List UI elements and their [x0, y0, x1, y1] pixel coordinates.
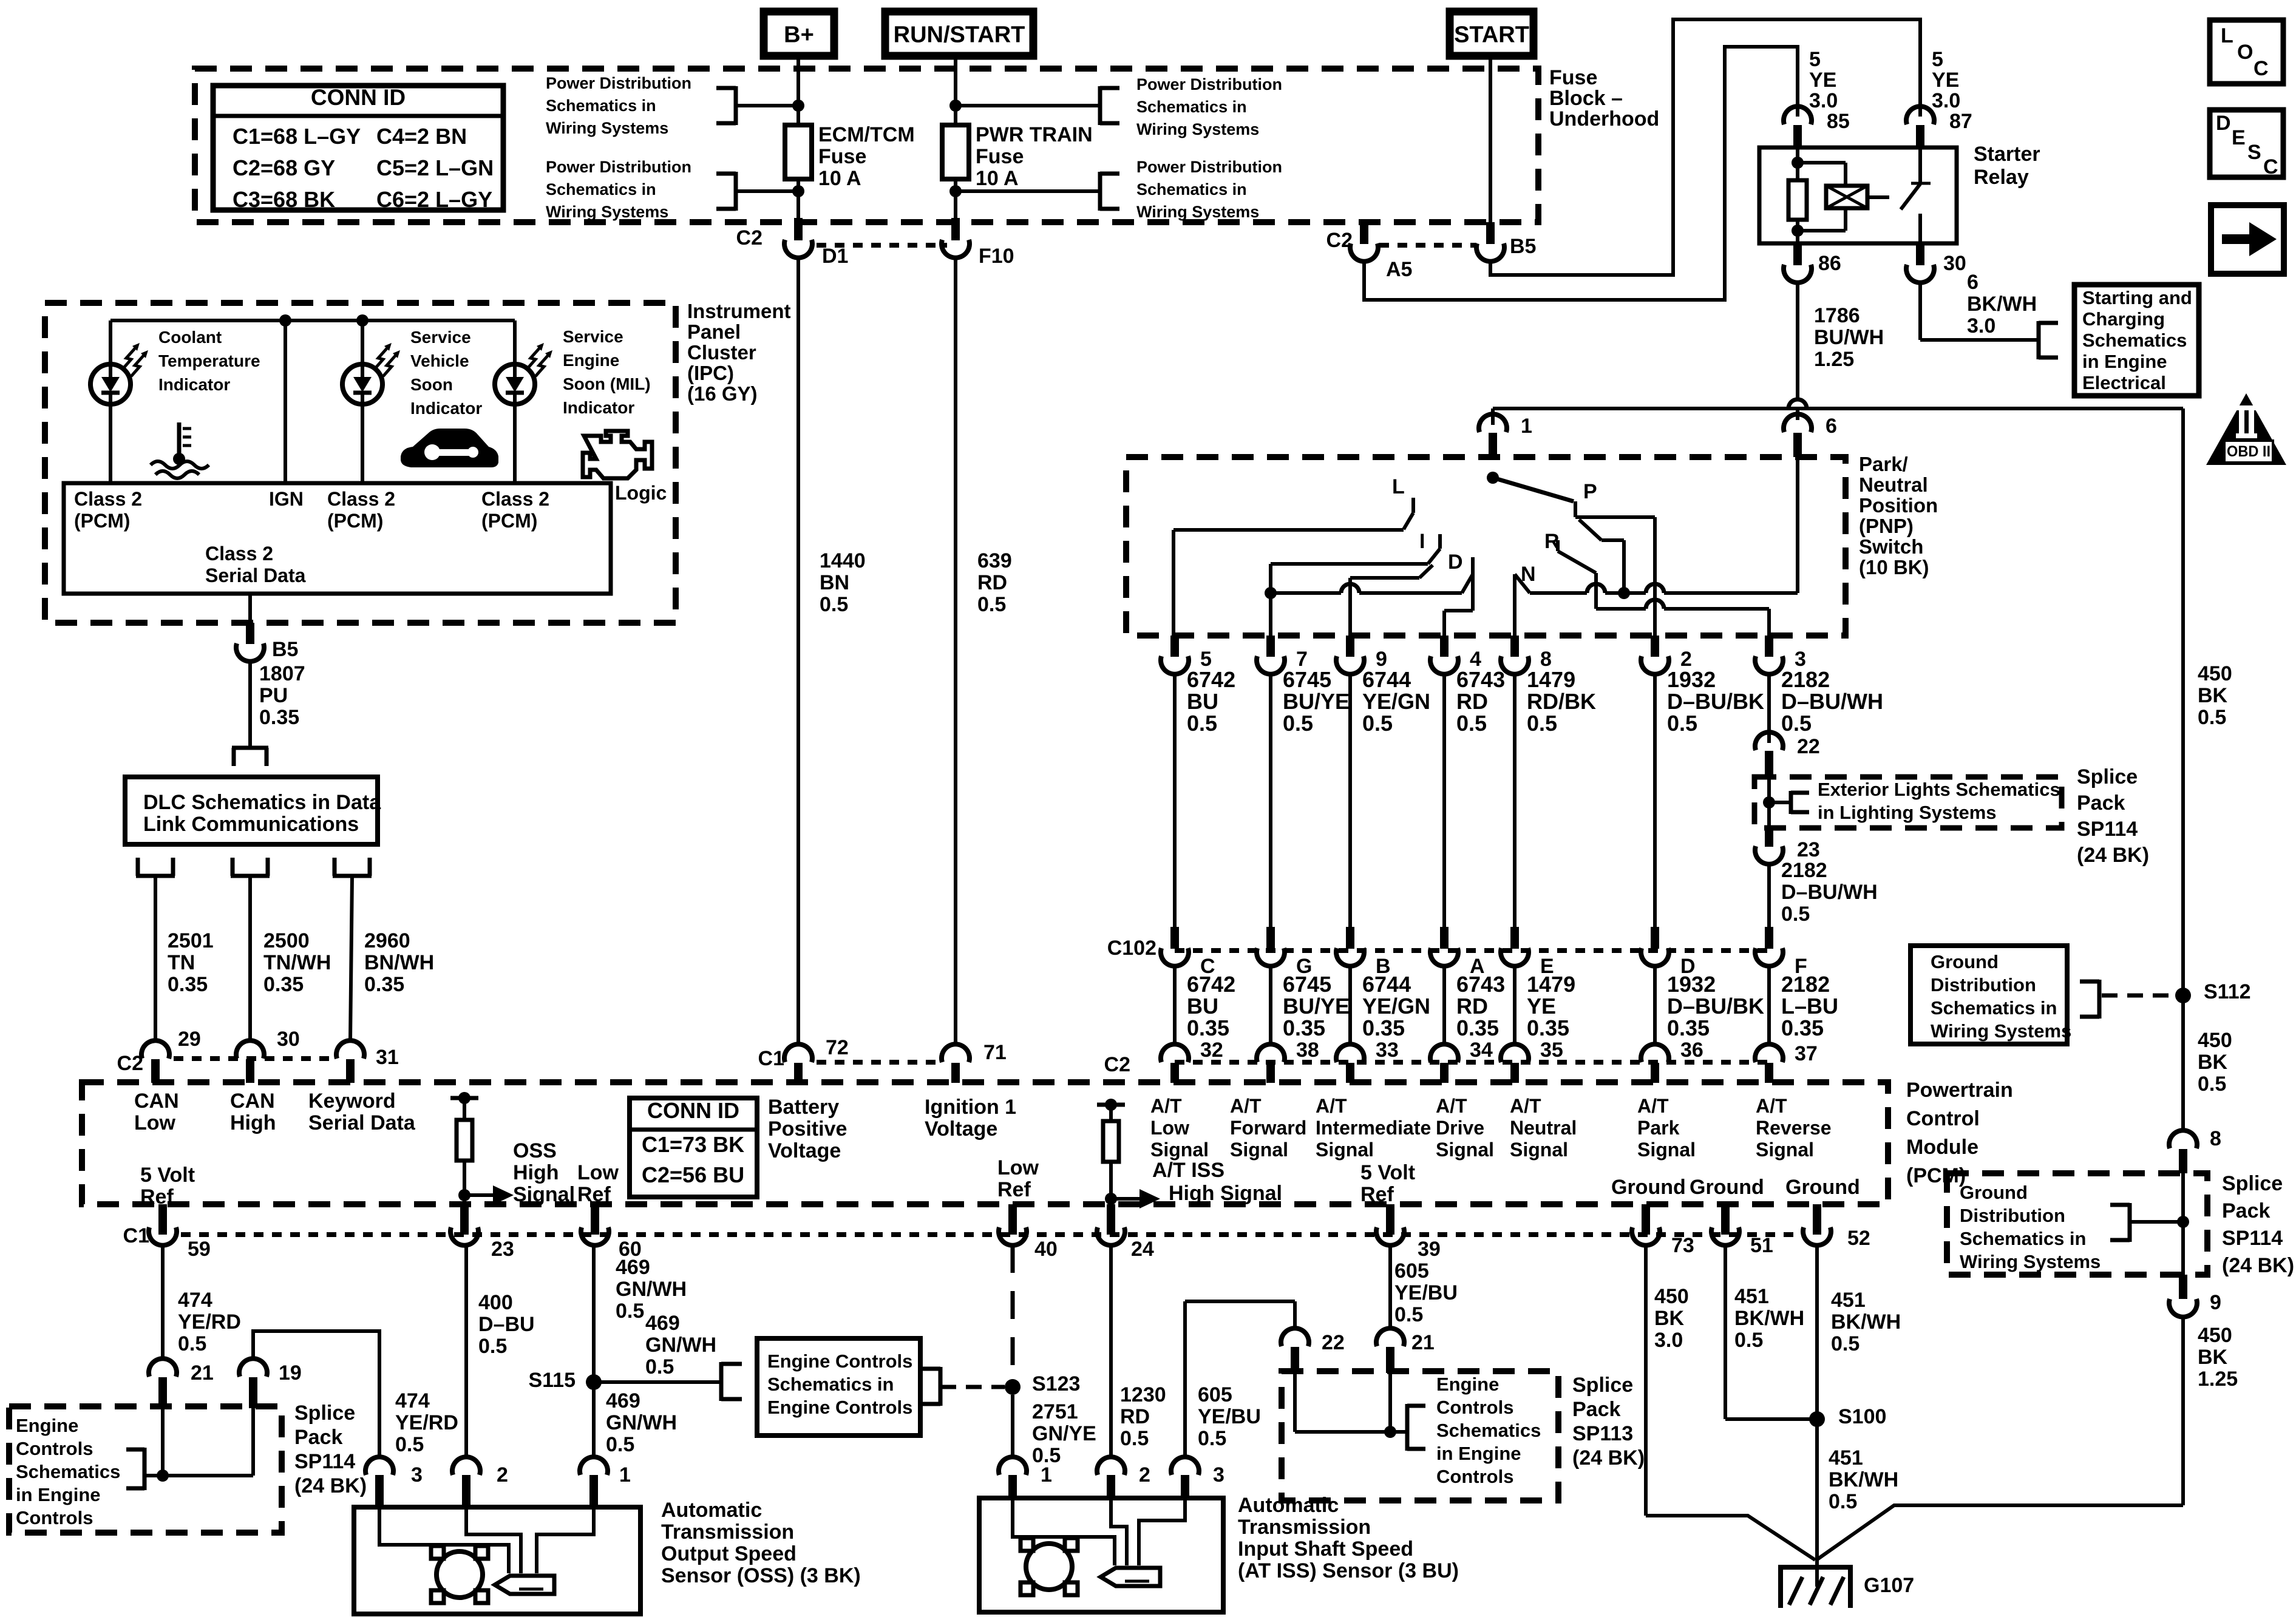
svg-text:Class 2: Class 2	[74, 488, 142, 510]
svg-text:31: 31	[376, 1046, 399, 1069]
svg-text:605: 605	[1198, 1383, 1232, 1406]
svg-text:Exterior Lights Schematics: Exterior Lights Schematics	[1818, 779, 2060, 800]
svg-text:2182: 2182	[1781, 667, 1830, 692]
svg-text:6743: 6743	[1456, 972, 1505, 997]
svg-text:0.5: 0.5	[616, 1300, 644, 1323]
svg-text:C1=73 BK: C1=73 BK	[642, 1132, 744, 1157]
svg-text:Signal: Signal	[513, 1183, 575, 1206]
svg-text:Indicator: Indicator	[410, 399, 482, 418]
svg-text:BU/WH: BU/WH	[1814, 326, 1884, 349]
svg-text:Splice: Splice	[2077, 765, 2138, 788]
svg-text:Signal: Signal	[1510, 1139, 1568, 1161]
svg-text:71: 71	[983, 1041, 1007, 1064]
svg-text:469: 469	[616, 1256, 650, 1279]
svg-text:1.25: 1.25	[2198, 1368, 2238, 1391]
svg-text:0.5: 0.5	[1831, 1332, 1860, 1355]
svg-text:C4=2 BN: C4=2 BN	[376, 124, 467, 149]
svg-text:59: 59	[188, 1238, 211, 1261]
svg-text:Signal: Signal	[1637, 1139, 1696, 1161]
svg-text:YE: YE	[1809, 69, 1836, 92]
svg-text:L–BU: L–BU	[1781, 994, 1838, 1019]
svg-text:0.35: 0.35	[1667, 1015, 1710, 1040]
svg-text:(PCM): (PCM)	[481, 510, 537, 532]
svg-text:2: 2	[497, 1463, 508, 1486]
svg-text:0.5: 0.5	[178, 1332, 206, 1355]
svg-text:YE/BU: YE/BU	[1198, 1405, 1261, 1428]
svg-text:in Lighting Systems: in Lighting Systems	[1818, 802, 1997, 823]
svg-text:I: I	[1419, 530, 1425, 553]
svg-text:Wiring Systems: Wiring Systems	[1960, 1251, 2101, 1272]
svg-text:TN/WH: TN/WH	[263, 951, 331, 974]
svg-text:2182: 2182	[1781, 972, 1830, 997]
svg-text:Fuse: Fuse	[818, 145, 866, 168]
svg-text:Engine: Engine	[563, 351, 619, 370]
svg-text:Underhood: Underhood	[1549, 107, 1659, 131]
svg-text:GN/YE: GN/YE	[1032, 1422, 1096, 1445]
svg-text:(24 BK): (24 BK)	[294, 1474, 367, 1497]
svg-text:34: 34	[1470, 1039, 1493, 1062]
svg-text:C2: C2	[1326, 229, 1353, 252]
svg-text:Electrical: Electrical	[2082, 372, 2166, 393]
svg-text:1: 1	[619, 1463, 631, 1486]
svg-text:in Engine: in Engine	[16, 1484, 101, 1505]
svg-text:L: L	[2221, 24, 2233, 47]
svg-text:C2: C2	[1104, 1053, 1130, 1076]
svg-text:Signal: Signal	[1756, 1139, 1814, 1161]
svg-text:Schematics in: Schematics in	[546, 97, 656, 115]
svg-text:450: 450	[2198, 662, 2232, 685]
svg-text:5: 5	[1809, 48, 1821, 71]
svg-text:2501: 2501	[168, 929, 214, 952]
svg-text:Schematics: Schematics	[1436, 1420, 1541, 1441]
svg-text:Temperature: Temperature	[158, 351, 260, 370]
svg-text:Wiring Systems: Wiring Systems	[1931, 1020, 2071, 1042]
svg-text:Class 2: Class 2	[205, 543, 273, 564]
svg-text:Powertrain: Powertrain	[1906, 1079, 2013, 1102]
svg-text:Forward: Forward	[1230, 1117, 1306, 1139]
svg-text:605: 605	[1394, 1259, 1429, 1283]
svg-text:86: 86	[1818, 252, 1841, 275]
svg-text:YE/GN: YE/GN	[1362, 689, 1430, 714]
svg-text:Power Distribution: Power Distribution	[546, 158, 691, 176]
svg-text:Intermediate: Intermediate	[1316, 1117, 1431, 1139]
svg-text:Signal: Signal	[1436, 1139, 1494, 1161]
svg-text:0.35: 0.35	[1527, 1015, 1569, 1040]
svg-text:Link Communications: Link Communications	[143, 813, 359, 836]
svg-text:23: 23	[491, 1238, 514, 1261]
svg-text:451: 451	[1831, 1289, 1866, 1312]
svg-text:B5: B5	[272, 638, 298, 661]
svg-text:Controls: Controls	[1436, 1397, 1513, 1418]
svg-text:0.35: 0.35	[259, 706, 299, 729]
svg-text:10 A: 10 A	[818, 167, 861, 190]
svg-text:C2: C2	[736, 226, 763, 249]
svg-text:Input Shaft Speed: Input Shaft Speed	[1238, 1537, 1413, 1561]
svg-text:BK: BK	[1654, 1307, 1685, 1330]
svg-text:35: 35	[1540, 1039, 1563, 1062]
svg-text:Neutral: Neutral	[1510, 1117, 1577, 1139]
svg-text:0.35: 0.35	[364, 973, 404, 996]
svg-text:BK/WH: BK/WH	[1734, 1307, 1804, 1330]
svg-text:Low: Low	[134, 1111, 176, 1134]
svg-text:0.5: 0.5	[2198, 706, 2226, 729]
svg-text:RUN/START: RUN/START	[894, 22, 1025, 48]
svg-text:0.35: 0.35	[1456, 1015, 1499, 1040]
svg-text:C2=56 BU: C2=56 BU	[642, 1162, 744, 1187]
svg-text:RD: RD	[977, 571, 1007, 594]
svg-text:DLC Schematics in Data: DLC Schematics in Data	[143, 791, 381, 814]
svg-text:1786: 1786	[1814, 304, 1860, 327]
svg-text:CONN ID: CONN ID	[311, 85, 406, 110]
svg-text:Schematics in: Schematics in	[1136, 98, 1247, 116]
svg-text:1: 1	[1041, 1463, 1052, 1486]
svg-text:D–BU/BK: D–BU/BK	[1667, 689, 1764, 714]
svg-text:Transmission: Transmission	[1238, 1516, 1371, 1539]
svg-text:A/T: A/T	[1510, 1095, 1541, 1117]
svg-text:A/T ISS: A/T ISS	[1152, 1159, 1224, 1182]
svg-text:2: 2	[1139, 1463, 1150, 1486]
svg-text:3: 3	[411, 1463, 423, 1486]
svg-text:A/T: A/T	[1637, 1095, 1669, 1117]
svg-text:1479: 1479	[1527, 667, 1575, 692]
svg-text:Charging: Charging	[2082, 308, 2165, 330]
svg-text:0.35: 0.35	[168, 973, 208, 996]
svg-text:5: 5	[1932, 48, 1943, 71]
svg-text:C: C	[2263, 155, 2278, 178]
svg-text:3.0: 3.0	[1932, 89, 1960, 112]
svg-text:GN/WH: GN/WH	[606, 1411, 677, 1434]
svg-text:C5=2 L–GN: C5=2 L–GN	[376, 155, 494, 180]
svg-text:52: 52	[1847, 1227, 1870, 1250]
svg-text:START: START	[1454, 22, 1529, 48]
svg-text:39: 39	[1418, 1238, 1441, 1261]
svg-text:Schematics: Schematics	[2082, 330, 2187, 351]
svg-text:0.5: 0.5	[1456, 711, 1487, 736]
svg-text:BK: BK	[2198, 684, 2228, 707]
svg-text:30: 30	[1943, 252, 1966, 275]
svg-text:0.5: 0.5	[1394, 1303, 1423, 1326]
svg-text:Automatic: Automatic	[661, 1499, 762, 1522]
svg-text:O: O	[2237, 41, 2253, 64]
svg-text:Ref: Ref	[577, 1183, 611, 1206]
svg-text:10 A: 10 A	[976, 167, 1019, 190]
svg-text:Vehicle: Vehicle	[410, 351, 469, 370]
svg-text:6742: 6742	[1187, 667, 1235, 692]
svg-text:Wiring Systems: Wiring Systems	[546, 119, 668, 137]
svg-text:1.25: 1.25	[1814, 348, 1854, 371]
svg-text:E: E	[2232, 126, 2246, 149]
svg-text:OSS: OSS	[513, 1139, 557, 1162]
svg-text:6745: 6745	[1283, 972, 1331, 997]
svg-text:Controls: Controls	[16, 1507, 93, 1528]
svg-text:C2=68 GY: C2=68 GY	[233, 155, 335, 180]
svg-text:2500: 2500	[263, 929, 310, 952]
svg-text:D–BU: D–BU	[478, 1313, 535, 1336]
svg-text:Splice: Splice	[1572, 1374, 1633, 1397]
svg-text:Engine Controls: Engine Controls	[767, 1351, 912, 1372]
svg-text:(24 BK): (24 BK)	[2077, 844, 2149, 867]
svg-text:Splice: Splice	[2222, 1172, 2283, 1195]
svg-text:6744: 6744	[1362, 972, 1411, 997]
svg-text:High: High	[230, 1111, 276, 1134]
svg-text:6743: 6743	[1456, 667, 1505, 692]
svg-text:0.5: 0.5	[606, 1433, 634, 1456]
svg-text:C3=68 BK: C3=68 BK	[233, 187, 335, 212]
svg-text:Sensor (OSS) (3 BK): Sensor (OSS) (3 BK)	[661, 1564, 861, 1587]
svg-text:A/T: A/T	[1316, 1095, 1347, 1117]
svg-text:Ground: Ground	[1931, 951, 1999, 972]
svg-text:Neutral: Neutral	[1859, 473, 1928, 496]
svg-text:P: P	[1583, 480, 1597, 503]
svg-text:Class 2: Class 2	[481, 488, 549, 510]
svg-text:RD/BK: RD/BK	[1527, 689, 1596, 714]
svg-text:BK: BK	[2198, 1051, 2228, 1074]
svg-text:5 Volt: 5 Volt	[1360, 1161, 1415, 1184]
svg-text:3.0: 3.0	[1654, 1329, 1683, 1352]
svg-text:Signal: Signal	[1150, 1139, 1209, 1161]
svg-text:Ground: Ground	[1611, 1176, 1686, 1199]
svg-text:YE: YE	[1932, 69, 1959, 92]
svg-text:Control: Control	[1906, 1107, 1980, 1130]
svg-text:C1: C1	[758, 1047, 784, 1070]
svg-text:29: 29	[178, 1028, 201, 1051]
svg-text:CAN: CAN	[230, 1090, 275, 1113]
svg-text:3.0: 3.0	[1809, 89, 1838, 112]
svg-text:Signal: Signal	[1230, 1139, 1288, 1161]
svg-text:474: 474	[395, 1389, 430, 1412]
svg-text:Ignition 1: Ignition 1	[925, 1096, 1016, 1119]
svg-text:High Signal: High Signal	[1169, 1182, 1282, 1205]
svg-text:Ref: Ref	[997, 1178, 1031, 1201]
svg-text:0.5: 0.5	[1667, 711, 1697, 736]
svg-text:Schematics in: Schematics in	[1136, 180, 1247, 198]
svg-text:D: D	[1448, 551, 1463, 574]
svg-text:High: High	[513, 1161, 559, 1184]
svg-text:Power Distribution: Power Distribution	[1136, 158, 1282, 176]
svg-text:Block –: Block –	[1549, 87, 1623, 110]
svg-text:0.35: 0.35	[1283, 1015, 1325, 1040]
svg-text:Starter: Starter	[1974, 143, 2040, 166]
svg-text:1932: 1932	[1667, 972, 1716, 997]
svg-text:Logic: Logic	[615, 482, 667, 504]
svg-text:Position: Position	[1859, 494, 1938, 517]
svg-text:Schematics in: Schematics in	[1960, 1228, 2086, 1249]
svg-text:36: 36	[1680, 1039, 1703, 1062]
svg-text:Coolant: Coolant	[158, 328, 222, 347]
svg-text:Ref: Ref	[140, 1185, 174, 1209]
svg-text:SP113: SP113	[1572, 1422, 1633, 1445]
svg-text:22: 22	[1322, 1331, 1345, 1354]
svg-text:1932: 1932	[1667, 667, 1716, 692]
svg-text:1440: 1440	[820, 549, 866, 572]
svg-text:Soon: Soon	[410, 375, 453, 394]
svg-text:0.5: 0.5	[478, 1335, 507, 1358]
svg-text:Power Distribution: Power Distribution	[1136, 75, 1282, 93]
svg-text:BN/WH: BN/WH	[364, 951, 434, 974]
svg-text:Wiring Systems: Wiring Systems	[1136, 203, 1259, 221]
svg-text:D–BU/WH: D–BU/WH	[1781, 881, 1878, 904]
svg-text:33: 33	[1376, 1039, 1399, 1062]
svg-text:Engine: Engine	[16, 1415, 78, 1436]
svg-text:BN: BN	[820, 571, 849, 594]
svg-text:RD: RD	[1456, 689, 1488, 714]
svg-text:37: 37	[1795, 1042, 1818, 1065]
svg-text:D1: D1	[822, 245, 848, 268]
svg-text:Automatic: Automatic	[1238, 1494, 1339, 1517]
svg-text:451: 451	[1829, 1446, 1863, 1470]
svg-text:Distribution: Distribution	[1960, 1205, 2065, 1226]
svg-text:Pack: Pack	[294, 1426, 342, 1449]
svg-text:G107: G107	[1864, 1574, 1914, 1597]
svg-text:A5: A5	[1386, 258, 1412, 281]
svg-text:(16 GY): (16 GY)	[687, 382, 758, 405]
svg-text:Engine Controls: Engine Controls	[767, 1397, 912, 1418]
svg-text:Fuse: Fuse	[1549, 66, 1597, 89]
svg-text:C102: C102	[1107, 937, 1156, 960]
svg-text:(PCM): (PCM)	[327, 510, 383, 532]
svg-text:0.5: 0.5	[2198, 1073, 2226, 1096]
svg-text:0.5: 0.5	[1283, 711, 1313, 736]
svg-text:0.5: 0.5	[1120, 1427, 1149, 1450]
svg-text:Indicator: Indicator	[158, 375, 230, 394]
svg-text:(IPC): (IPC)	[687, 362, 734, 384]
svg-text:0.5: 0.5	[1362, 711, 1393, 736]
svg-text:Engine: Engine	[1436, 1374, 1499, 1395]
svg-text:Low: Low	[997, 1156, 1039, 1179]
svg-text:0.5: 0.5	[977, 593, 1006, 616]
svg-text:A/T: A/T	[1150, 1095, 1182, 1117]
svg-text:Transmission: Transmission	[661, 1520, 794, 1544]
svg-text:RD: RD	[1120, 1405, 1150, 1428]
svg-text:Cluster: Cluster	[687, 341, 756, 364]
svg-text:Positive: Positive	[768, 1117, 847, 1141]
svg-text:40: 40	[1034, 1238, 1058, 1261]
svg-text:PWR TRAIN: PWR TRAIN	[976, 123, 1093, 146]
svg-text:D–BU/BK: D–BU/BK	[1667, 994, 1764, 1019]
svg-text:0.5: 0.5	[395, 1433, 424, 1456]
svg-text:PU: PU	[259, 684, 288, 707]
svg-text:3: 3	[1213, 1463, 1224, 1486]
svg-text:19: 19	[279, 1361, 302, 1385]
svg-text:S: S	[2247, 141, 2261, 164]
svg-text:450: 450	[1654, 1285, 1689, 1308]
svg-text:TN: TN	[168, 951, 195, 974]
svg-text:23: 23	[1797, 838, 1820, 861]
svg-text:2182: 2182	[1781, 859, 1827, 882]
svg-text:5 Volt: 5 Volt	[140, 1164, 195, 1187]
svg-text:0.35: 0.35	[1781, 1015, 1824, 1040]
svg-text:469: 469	[645, 1312, 680, 1335]
svg-text:73: 73	[1671, 1234, 1694, 1257]
svg-text:BU: BU	[1187, 994, 1218, 1019]
svg-text:Schematics in: Schematics in	[546, 180, 656, 198]
svg-text:Voltage: Voltage	[768, 1139, 841, 1162]
svg-text:Ground: Ground	[1785, 1176, 1860, 1199]
svg-text:B+: B+	[784, 22, 814, 48]
svg-text:Module: Module	[1906, 1136, 1978, 1159]
svg-text:OBD II: OBD II	[2227, 443, 2271, 460]
svg-text:GN/WH: GN/WH	[616, 1278, 687, 1301]
svg-text:0.5: 0.5	[645, 1355, 674, 1378]
svg-text:Drive: Drive	[1436, 1117, 1484, 1139]
svg-text:Switch: Switch	[1859, 535, 1923, 558]
svg-text:639: 639	[977, 549, 1012, 572]
svg-text:Panel: Panel	[687, 320, 741, 343]
svg-text:8: 8	[2210, 1127, 2221, 1150]
svg-text:C1: C1	[123, 1224, 149, 1247]
svg-text:51: 51	[1750, 1234, 1773, 1257]
svg-text:Soon (MIL): Soon (MIL)	[563, 375, 651, 393]
svg-text:24: 24	[1131, 1238, 1154, 1261]
svg-text:D: D	[2216, 112, 2231, 135]
svg-text:Schematics: Schematics	[16, 1461, 120, 1482]
svg-text:Serial Data: Serial Data	[308, 1111, 416, 1134]
svg-text:Signal: Signal	[1316, 1139, 1374, 1161]
svg-text:Park/: Park/	[1859, 453, 1908, 475]
svg-text:YE/BU: YE/BU	[1394, 1281, 1458, 1304]
svg-text:0.35: 0.35	[263, 973, 304, 996]
svg-text:(24 BK): (24 BK)	[1572, 1446, 1645, 1470]
svg-text:Wiring Systems: Wiring Systems	[546, 203, 668, 221]
svg-text:SP114: SP114	[2222, 1227, 2283, 1250]
svg-text:6: 6	[1826, 415, 1837, 438]
svg-text:Controls: Controls	[1436, 1466, 1513, 1487]
svg-text:6: 6	[1967, 271, 1978, 294]
svg-text:6745: 6745	[1283, 667, 1331, 692]
svg-text:Output Speed: Output Speed	[661, 1542, 796, 1565]
svg-text:F10: F10	[979, 245, 1014, 268]
svg-text:Distribution: Distribution	[1931, 974, 2036, 995]
svg-text:Pack: Pack	[1572, 1398, 1620, 1421]
svg-text:L: L	[1392, 475, 1405, 498]
svg-text:Low: Low	[1150, 1117, 1189, 1139]
svg-text:BK/WH: BK/WH	[1829, 1468, 1898, 1491]
svg-text:C: C	[2254, 57, 2269, 80]
svg-text:Serial Data: Serial Data	[205, 564, 306, 586]
svg-text:469: 469	[606, 1389, 640, 1412]
svg-text:B5: B5	[1510, 235, 1536, 258]
svg-text:IGN: IGN	[269, 488, 304, 510]
svg-text:0.5: 0.5	[1781, 711, 1812, 736]
svg-text:0.5: 0.5	[820, 593, 848, 616]
svg-text:6742: 6742	[1187, 972, 1235, 997]
svg-text:72: 72	[826, 1036, 849, 1059]
svg-text:0.5: 0.5	[1527, 711, 1557, 736]
svg-text:BU/YE: BU/YE	[1283, 689, 1350, 714]
svg-text:38: 38	[1296, 1039, 1319, 1062]
svg-text:Power Distribution: Power Distribution	[546, 74, 691, 92]
svg-text:0.5: 0.5	[1734, 1329, 1763, 1352]
svg-text:Indicator: Indicator	[563, 398, 634, 417]
svg-text:S112: S112	[2204, 980, 2251, 1003]
svg-text:450: 450	[2198, 1324, 2232, 1347]
svg-text:YE/RD: YE/RD	[395, 1411, 458, 1434]
svg-text:ECM/TCM: ECM/TCM	[818, 123, 915, 146]
svg-text:0.35: 0.35	[1187, 1015, 1229, 1040]
svg-text:S115: S115	[528, 1369, 576, 1392]
svg-text:(10 BK): (10 BK)	[1859, 556, 1929, 578]
svg-text:2960: 2960	[364, 929, 410, 952]
svg-text:0.5: 0.5	[1187, 711, 1217, 736]
svg-text:(AT ISS) Sensor (3 BU): (AT ISS) Sensor (3 BU)	[1238, 1559, 1459, 1582]
svg-text:Pack: Pack	[2222, 1199, 2270, 1222]
svg-text:Low: Low	[577, 1161, 619, 1184]
svg-text:Starting and: Starting and	[2082, 287, 2192, 308]
svg-text:CONN ID: CONN ID	[647, 1098, 739, 1123]
svg-text:YE/RD: YE/RD	[178, 1310, 241, 1334]
svg-text:Schematics in: Schematics in	[767, 1374, 894, 1395]
svg-text:S100: S100	[1838, 1405, 1886, 1428]
